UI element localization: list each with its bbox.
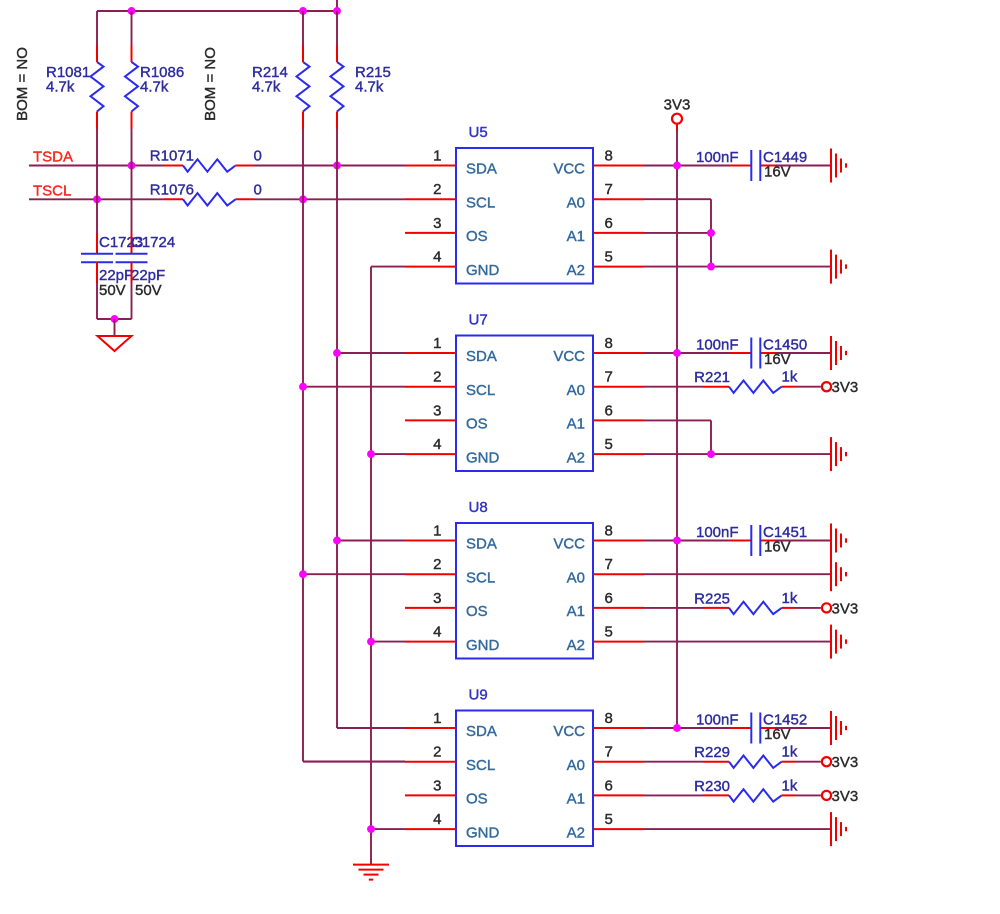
wire top rail [97,10,337,12]
wire C1724 lower [131,262,133,283]
node 3V3 bus / U7 VCC [673,349,681,357]
node junction rail/R1086 [128,7,136,15]
svg-text:BOM = NO: BOM = NO [202,47,219,121]
svg-text:A2: A2 [567,449,585,466]
wire U7 pin7 A0 stub [593,386,644,388]
wire U9 pin1 from SDA bus [337,727,405,729]
wire U5 pin5 A2 to ground [593,266,644,268]
svg-text:A0: A0 [567,569,585,586]
node GND bus / U7 pin4 [367,450,375,458]
wire U9 pin5 A2 to ground [593,828,644,830]
svg-text:VCC: VCC [553,348,585,365]
ground U8 A2 [830,625,832,659]
svg-text:A1: A1 [567,416,585,433]
wire U8 pin3 OS stub (no connect) [405,607,456,609]
svg-text:OS: OS [466,416,488,433]
svg-text:4.7k: 4.7k [355,79,384,96]
svg-text:5: 5 [605,436,613,453]
node TSCL/R1081 junction [93,195,101,203]
wire U7 pin2 from SCL bus [303,386,405,388]
wire R1081 lower / C1723 upper [96,129,98,233]
wire U9 pin7 A0 stub [593,761,644,763]
resistor R221 1k [644,369,821,393]
wire U5 pin8 VCC [593,165,644,167]
svg-text:3: 3 [433,777,441,794]
wire U7 pin1 from SDA bus [337,352,405,354]
resistor R1086 4.7k [125,11,184,129]
node U7 A2 tie [707,450,715,458]
wire SDA from R1071 to U5 pin1 [254,165,406,167]
svg-text:C1724: C1724 [131,234,175,251]
ground U5 A2 [830,250,832,284]
svg-text:A2: A2 [567,262,585,279]
op-amp U5 (I2C temp sensor IC box) [433,124,613,284]
wire U8 pin8 VCC [593,540,644,542]
wire C1451 to ground [776,540,831,542]
wire U5 A1 to tie-down [644,232,711,234]
ground GND bus earth symbol [353,864,389,866]
wire U8 A0 to ground [644,573,831,575]
svg-text:3V3: 3V3 [832,788,859,805]
svg-text:3: 3 [433,402,441,419]
svg-text:1k: 1k [782,777,798,794]
node 3V3 bus / U5 VCC [673,162,681,170]
svg-text:2: 2 [433,369,441,386]
svg-text:U7: U7 [469,312,488,329]
svg-text:U8: U8 [469,499,488,516]
wire U8 pin7 A0 stub [593,573,644,575]
wire SDA bus (x=337) [336,129,338,728]
svg-text:A2: A2 [567,824,585,841]
node SDA bus / U8 pin1 [333,537,341,545]
svg-text:4: 4 [433,436,441,453]
svg-text:3V3: 3V3 [664,97,691,114]
svg-text:8: 8 [605,523,613,540]
ground power triangle [98,336,132,351]
wire U5 pin4 to GND bus [371,266,405,268]
wire U9 pin2 from SCL bus [303,761,405,763]
wire U9 pin3 OS stub (no connect) [405,794,456,796]
resistor R1081 4.7k [46,11,104,129]
svg-text:SDA: SDA [466,536,497,553]
wire C1450 to ground [776,352,831,354]
node cap joint [111,315,119,323]
wire U7 pin4 from GND bus [371,453,405,455]
wire U7 A1 to tie-down [644,419,711,421]
svg-text:4.7k: 4.7k [252,79,281,96]
ground U9 A2 [830,812,832,846]
ground U9 VCC decoupling [830,711,832,745]
svg-text:1: 1 [433,523,441,540]
node GND bus / U9 pin4 [367,825,375,833]
svg-text:GND: GND [466,637,500,654]
svg-text:5: 5 [605,624,613,641]
node GND bus / U8 pin4 [367,638,375,646]
svg-text:2: 2 [433,181,441,198]
svg-text:3: 3 [433,590,441,607]
node SDA bus / U7 pin1 [333,349,341,357]
wire U5 pin1 stub [405,165,456,167]
wire U7 pin5 A2 to ground [593,453,644,455]
node U5 A1 tie [707,229,715,237]
svg-text:R1076: R1076 [150,181,194,198]
svg-text:3V3: 3V3 [832,754,859,771]
svg-text:7: 7 [605,369,613,386]
svg-text:A1: A1 [567,791,585,808]
svg-text:GND: GND [466,449,500,466]
svg-text:50V: 50V [99,282,126,299]
ground U5 VCC decoupling [830,149,832,183]
resistor R1071 0 ohm [150,148,262,172]
wire U8 pin2 from SCL bus [303,573,405,575]
wire U9 pin4 from GND bus [371,828,405,830]
wire U7 pin8 VCC [593,352,644,354]
node 3V3 bus / U9 VCC [673,724,681,732]
capacitor C1723 22pF 50V [81,234,143,299]
svg-text:U9: U9 [469,687,488,704]
svg-text:BOM = NO: BOM = NO [14,47,31,121]
wire U5 pin2 stub [405,198,456,200]
node SCL bus / U8 pin2 [299,570,307,578]
wire U5 A0 to tie-down [644,198,711,200]
svg-text:R230: R230 [694,778,730,795]
wire C1449 to ground [776,165,831,167]
power 3V3 port (R225) [822,600,858,617]
svg-text:GND: GND [466,262,500,279]
svg-text:4.7k: 4.7k [140,79,169,96]
svg-text:U5: U5 [469,124,488,141]
svg-text:TSDA: TSDA [33,149,73,166]
svg-text:A2: A2 [567,637,585,654]
resistor R229 1k [644,744,821,768]
power 3V3 port (R229) [822,754,858,771]
svg-text:6: 6 [605,777,613,794]
wire U8 pin5 A2 to ground [593,641,644,643]
capacitor C1452 100nF 16V [696,712,807,744]
svg-text:3V3: 3V3 [832,600,859,617]
svg-text:A0: A0 [567,757,585,774]
op-amp U8 (I2C temp sensor IC box) [433,499,613,659]
node 3V3 bus / U8 VCC [673,537,681,545]
wire U5 pin6 A1 stub [593,232,644,234]
svg-text:6: 6 [605,215,613,232]
svg-text:VCC: VCC [553,161,585,178]
svg-text:7: 7 [605,556,613,573]
svg-text:SDA: SDA [466,348,497,365]
wire U8 pin1 from SDA bus [337,540,405,542]
wire U5 pin7 A0 stub [593,198,644,200]
svg-text:VCC: VCC [553,723,585,740]
wire U7 pin6 A1 stub [593,419,644,421]
wire U5 pin4 stub [405,266,456,268]
svg-text:SDA: SDA [466,723,497,740]
node junction rail/R214 [299,7,307,15]
wire 3V3 bus (x=677) [676,131,678,729]
svg-text:100nF: 100nF [696,712,739,729]
resistor R1076 0 ohm [150,181,262,205]
ground U7 VCC decoupling [830,336,832,370]
svg-text:VCC: VCC [553,536,585,553]
svg-text:3: 3 [433,215,441,232]
svg-text:SCL: SCL [466,194,495,211]
capacitor C1724 22pF 50V [116,234,176,299]
svg-text:1: 1 [433,710,441,727]
wire U9 pin6 A1 stub [593,794,644,796]
svg-text:OS: OS [466,791,488,808]
svg-text:A1: A1 [567,603,585,620]
svg-text:SCL: SCL [466,757,495,774]
wire stub above rail [336,0,338,11]
svg-text:1: 1 [433,148,441,165]
wire GND bus (x=371) [370,267,372,865]
resistor R230 1k [644,777,821,801]
svg-text:A0: A0 [567,194,585,211]
wire SCL bus to U9 pin2 [303,761,405,763]
capacitor C1451 100nF 16V [696,524,807,556]
svg-text:8: 8 [605,335,613,352]
svg-text:R229: R229 [694,744,730,761]
capacitor C1449 100nF 16V [696,149,807,181]
svg-text:8: 8 [605,148,613,165]
svg-text:SDA: SDA [466,161,497,178]
svg-text:100nF: 100nF [696,337,739,354]
node TSDA/R1086 junction [128,162,136,170]
svg-text:2: 2 [433,744,441,761]
svg-text:6: 6 [605,402,613,419]
wire TSCL left segment [29,198,164,200]
svg-text:GND: GND [466,824,500,841]
wire U7 pin3 OS stub (no connect) [405,419,456,421]
svg-text:R225: R225 [694,590,730,607]
ground U7 A2 [830,437,832,471]
svg-text:OS: OS [466,228,488,245]
resistor R215 4.7k [331,11,391,129]
wire cap ground joint [97,318,132,320]
svg-text:1k: 1k [782,744,798,761]
svg-text:6: 6 [605,590,613,607]
svg-text:R221: R221 [694,369,730,386]
node junction rail/R215 [333,7,341,15]
wire R1086 lower / C1724 upper [131,129,133,233]
wire C1452 to ground [776,727,831,729]
svg-text:0: 0 [254,181,262,198]
svg-text:SCL: SCL [466,569,495,586]
svg-text:7: 7 [605,181,613,198]
svg-text:100nF: 100nF [696,149,739,166]
svg-text:5: 5 [605,811,613,828]
wire U5 pin3 OS stub (no connect) [405,232,456,234]
svg-text:A1: A1 [567,228,585,245]
svg-text:5: 5 [605,249,613,266]
svg-text:4: 4 [433,811,441,828]
svg-text:SCL: SCL [466,382,495,399]
svg-text:1: 1 [433,335,441,352]
svg-text:4.7k: 4.7k [46,79,75,96]
svg-text:8: 8 [605,710,613,727]
svg-text:0: 0 [254,148,262,165]
resistor R225 1k [644,590,821,614]
svg-text:4: 4 [433,624,441,641]
svg-text:TSCL: TSCL [33,182,71,199]
wire U8 pin6 A1 stub [593,607,644,609]
power 3V3 symbol [664,97,691,131]
capacitor C1450 100nF 16V [696,337,807,369]
op-amp U9 (I2C temp sensor IC box) [433,687,613,847]
power 3V3 port (R230) [822,788,858,805]
svg-text:50V: 50V [135,282,162,299]
svg-text:1k: 1k [782,369,798,386]
svg-text:4: 4 [433,249,441,266]
node U5 A2 tie [707,263,715,271]
wire C1723 lower [96,262,98,283]
svg-text:A0: A0 [567,382,585,399]
svg-text:R1071: R1071 [150,148,194,165]
svg-text:OS: OS [466,603,488,620]
node SCL bus / U7 pin2 [299,383,307,391]
power 3V3 port (R221) [822,379,858,396]
resistor R214 4.7k [252,11,310,129]
ground U8 VCC decoupling [830,524,832,558]
svg-text:100nF: 100nF [696,524,739,541]
svg-text:3V3: 3V3 [832,379,859,396]
wire TSDA left segment [29,165,164,167]
wire SCL from R1076 to U5 pin2 [254,198,406,200]
op-amp U7 (I2C temp sensor IC box) [433,312,613,472]
svg-text:7: 7 [605,744,613,761]
wire to power ground [114,319,116,336]
ground U8 A0 [830,557,832,591]
wire U8 pin4 from GND bus [371,641,405,643]
svg-text:1k: 1k [782,590,798,607]
node SCL/R214-bus junction [299,195,307,203]
wire SCL bus (x=303) [302,129,304,762]
wire U9 pin8 VCC [593,727,644,729]
svg-text:2: 2 [433,556,441,573]
wire SDA bus to U9 pin1 [337,727,405,729]
node SDA/R215-bus junction [333,162,341,170]
